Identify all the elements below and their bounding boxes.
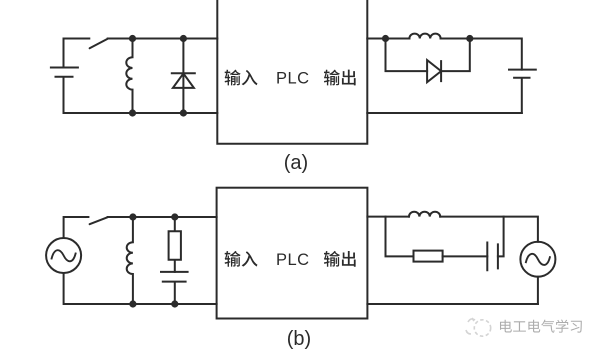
sine wave G1 [52,250,76,261]
inductor L2 (a-right) [409,34,440,39]
wire a-right diode branch right [441,39,470,72]
capacitor C2 (b-right) [487,243,498,271]
node b-left bottom inductor [129,300,136,307]
svg-text:PLC: PLC [276,70,310,88]
wire b-left source bottom lead + bottom wire [64,273,217,304]
AC source G1 (b-left) [46,238,81,273]
node a-left bottom diode [180,109,187,116]
label 输入 (a) [225,70,241,86]
wire a-left top (battery to switch) [64,38,90,40]
node a-right diode left [382,35,389,42]
switch S1 blade [90,39,108,49]
wire b-right bottom [367,303,538,305]
PLC box (b) [217,188,368,319]
resistor R2 (b-right) [414,251,443,262]
battery B2 (a-right load supply) [509,70,536,113]
node a-left top inductor [129,35,136,42]
capacitor C1 (b-left) [161,272,188,304]
wire a-right top (box to corner) [367,38,409,40]
switch S2 blade [90,217,108,224]
battery B1 (a-left DC source) [51,39,78,114]
diode VD2 (a-right freewheeling) [427,60,441,82]
diode VD1 (a-left surge suppressor) [172,39,195,114]
wire a-right top to battery [441,39,522,70]
node a-left top diode [180,35,187,42]
svg-text:(a): (a) [284,152,308,174]
resistor R1 (b-left) [169,217,181,272]
wire resistor to capacitor [443,255,488,257]
node a-left bottom inductor [129,109,136,116]
wire b-right source bottom lead [537,277,539,304]
wire b-right top to AC source [440,217,538,242]
sine wave G2 [526,254,550,265]
wire a-left bottom [64,112,218,114]
wire b-right RC branch left drop [386,217,414,257]
PLC box (a) [217,0,367,144]
wire b-right RC branch right riser [498,217,504,257]
node b-left top RC [171,213,178,220]
wire a-right diode branch left [386,39,428,72]
node b-left top inductor [129,213,136,220]
label 输出 (a) [324,70,340,86]
inductor L1 (a-left) [126,39,132,114]
node b-left bottom RC [171,300,178,307]
wire a-left top (switch to PLC box) [108,38,218,40]
svg-text:PLC: PLC [276,251,310,269]
wire b-left source top lead [64,217,89,238]
inductor L4 (b-right) [409,212,440,217]
AC source G2 (b-right) [520,242,555,277]
inductor L3 (b-left) [127,217,133,304]
wire b-right top (box to coil) [367,216,409,218]
node a-right diode right [466,35,473,42]
label 输入 (b) [225,251,241,267]
svg-text:(b): (b) [287,328,311,350]
label 输出 (b) [324,251,340,267]
watermark logo [466,318,491,336]
wire b-left top (switch to PLC box) [108,216,217,218]
watermark text 电工电气学习 [500,320,512,333]
wire a-right bottom [367,112,522,114]
